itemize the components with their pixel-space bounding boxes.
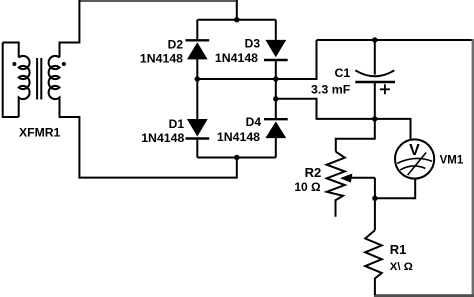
resistor R1 top lead [374, 198, 376, 230]
wire R2 top lead path [336, 119, 375, 152]
wire node W to VM1 bottom [375, 179, 415, 198]
wire primary top [3, 43, 19, 58]
svg-text:1N4148: 1N4148 [217, 130, 260, 144]
wire top edge (partially clipped at image top) [78, 0, 237, 2]
diode D3 top lead [275, 20, 277, 40]
wire bottom edge (partially clipped) [374, 294, 474, 297]
node dot right branch lower [273, 96, 278, 101]
capacitor C1 plus sign [380, 84, 390, 94]
wire top rail [317, 39, 474, 41]
diode D3 cathode bar [264, 59, 288, 61]
resistor R1 zigzag [365, 230, 382, 295]
svg-text:X\ Ω: X\ Ω [390, 261, 413, 273]
svg-text:1N4148: 1N4148 [140, 52, 183, 66]
voltmeter VM1 scale arc small [400, 166, 425, 170]
node dot top rail cap tap [372, 37, 377, 42]
node dot bridge top [234, 17, 239, 22]
capacitor C1 top lead [374, 40, 376, 75]
capacitor C1 bottom lead [374, 82, 376, 119]
diode D2 leads [196, 20, 198, 119]
secondary phasing dot [62, 62, 66, 66]
voltmeter VM1 needle [408, 153, 427, 176]
capacitor C1 straight plate [355, 81, 395, 83]
diode D1 cathode bar [186, 137, 210, 139]
svg-text:10 Ω: 10 Ω [294, 180, 321, 194]
svg-text:D3: D3 [245, 37, 261, 51]
svg-text:XFMR1: XFMR1 [19, 126, 61, 140]
diode D4 cathode bar [264, 118, 288, 120]
diode D2 triangle [187, 42, 208, 59]
wire bridge bottom node [197, 157, 275, 159]
svg-text:D1: D1 [169, 117, 185, 131]
capacitor C1 curved plate [355, 70, 394, 76]
transformer XFMR1 primary winding [19, 56, 30, 117]
svg-text:R1: R1 [390, 242, 407, 257]
wire primary left loop [3, 43, 19, 118]
diode D1 bottom lead [196, 140, 198, 158]
svg-text:D2: D2 [168, 37, 184, 51]
svg-text:1N4148: 1N4148 [215, 51, 258, 65]
diode D3 bottom lead [275, 61, 277, 118]
potentiometer R2 wiper arrowhead [340, 174, 352, 183]
diode D3 triangle [265, 40, 286, 57]
voltmeter VM1 scale arc big [397, 158, 432, 163]
node dot right branch crossing [273, 76, 278, 81]
wire secondary top vertical to top edge [60, 0, 80, 58]
node dot left branch mid [195, 76, 200, 81]
node dot bridge bottom [234, 155, 239, 160]
wire DC right-mid to cap bottom node [276, 99, 375, 119]
wire DC left-mid to right rail riser [197, 40, 316, 79]
diode D1 triangle [187, 119, 208, 137]
diode D4 triangle [265, 121, 286, 138]
potentiometer R2 wiper arrow shaft [351, 177, 375, 179]
svg-text:VM1: VM1 [440, 155, 464, 167]
transformer XFMR1 secondary winding [49, 56, 60, 117]
node dot cap bottom junction [372, 116, 377, 121]
diode D2 cathode bar [186, 39, 210, 41]
diode D4 bottom lead [275, 138, 277, 157]
voltmeter VM1 circle [395, 139, 434, 178]
wire secondary bottom to bridge bottom [60, 98, 237, 178]
svg-text:3.3 mF: 3.3 mF [311, 82, 351, 96]
wire VM1 top lead [375, 119, 411, 139]
node dot W [372, 196, 377, 201]
transformer core [36, 58, 38, 100]
primary phasing dot [12, 62, 16, 66]
svg-text:D4: D4 [246, 115, 262, 129]
wire right edge [472, 39, 474, 297]
svg-text:V: V [409, 142, 420, 159]
svg-text:C1: C1 [334, 66, 350, 80]
wire top edge drop to bridge top node [236, 0, 238, 20]
svg-text:R2: R2 [305, 165, 322, 180]
wire wiper down to node W [374, 178, 376, 199]
potentiometer R2 zigzag [327, 152, 345, 217]
wire bridge top node [197, 19, 275, 21]
svg-text:1N4148: 1N4148 [141, 131, 184, 145]
